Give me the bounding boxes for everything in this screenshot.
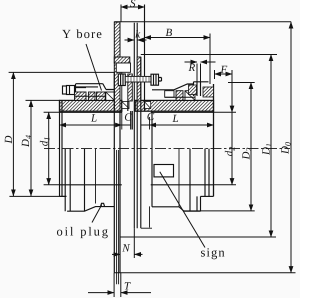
top ext line to D0 [114, 21, 291, 23]
left cover step to sleeve [103, 84, 115, 90]
bore step lines left [65, 149, 70, 212]
bolt tip [159, 78, 162, 82]
label D4 (rotated) [22, 135, 31, 147]
left flange outer face [121, 72, 123, 129]
label sign [201, 248, 224, 259]
hub left chamfer line [61, 100, 63, 196]
flange bolt head [118, 74, 125, 86]
bore step lines right [205, 149, 209, 197]
label F [220, 66, 227, 73]
bottom ext left [9, 195, 66, 197]
sign leader [160, 172, 205, 248]
label L [172, 115, 178, 122]
bore bottom line right [151, 184, 214, 186]
k plate thin tall [134, 23, 137, 229]
label Y bore [62, 29, 101, 38]
N dim [133, 228, 135, 258]
bore bottom line left [60, 184, 122, 186]
right sleeve drum top edge [152, 82, 209, 90]
label D2 (rotated) [242, 148, 251, 160]
label R [188, 64, 195, 71]
flange plate2 hatched [128, 74, 133, 101]
L C C L dim row [60, 124, 122, 126]
left end cover bolt head [63, 86, 67, 94]
right cover bolt hatched head [203, 87, 214, 97]
sign plate [154, 165, 174, 177]
label S [130, 0, 135, 7]
hub left face [59, 100, 61, 196]
right sleeve flange face [144, 5, 146, 112]
right flange hub ring stub [149, 117, 151, 228]
label L [91, 114, 97, 121]
left end cover plate [76, 84, 103, 96]
label N [122, 244, 130, 251]
label C [147, 113, 154, 120]
disc inner pair [117, 150, 119, 284]
bottom-right external drum and cover [151, 111, 153, 207]
brake disc plate tall hatched [114, 22, 120, 111]
label oil plug [57, 227, 108, 238]
D4 dim [26, 99, 60, 101]
d1 dim [44, 112, 60, 185]
flange bolt nut [151, 74, 159, 85]
left hub hatched wall band [60, 100, 122, 111]
D dim left [9, 71, 115, 73]
bolt lug section right [144, 102, 150, 109]
label T [125, 282, 131, 289]
S dim [121, 5, 145, 38]
Y bore leader [86, 44, 102, 91]
flange bottom edge [141, 227, 152, 229]
label D (rotated) [5, 136, 12, 144]
left bolt shank [75, 88, 87, 93]
R dim [185, 61, 198, 63]
bolt lug section left [122, 102, 129, 109]
right seal rings [165, 91, 174, 98]
oil plug bump [101, 203, 105, 206]
k dim [125, 39, 135, 41]
flange bolt shank [125, 76, 151, 82]
ext line to D1 [141, 54, 277, 56]
disc top edge [114, 21, 120, 23]
hub right face [213, 84, 215, 196]
right cover plate [194, 82, 201, 96]
bore top line right [151, 111, 214, 113]
bore top line left [60, 111, 122, 113]
flange plate4 hatched [137, 57, 141, 101]
label k [136, 30, 141, 38]
B dim [145, 37, 211, 39]
bottom-left external cover ring [60, 195, 67, 197]
disc foot ring hatched [114, 57, 130, 63]
disc faces full length [114, 72, 120, 272]
centerline [44, 148, 290, 150]
white box under foot [116, 63, 130, 72]
T dim [114, 273, 121, 297]
d2 bore dim line [231, 70, 233, 105]
D0 dim [290, 22, 292, 273]
right hub hatched wall band [135, 100, 213, 111]
D1 dim [270, 55, 272, 238]
label d1 (rotated) [40, 138, 50, 146]
left seal rings [75, 92, 87, 100]
F dim [215, 73, 233, 75]
label C [125, 113, 132, 120]
oil plug leader [92, 205, 102, 223]
label d2 (rotated) [225, 147, 235, 156]
label B [166, 29, 172, 36]
d2ext top [228, 82, 255, 84]
label D0 (rotated) [281, 142, 290, 154]
label D1 (rotated) [262, 144, 271, 155]
